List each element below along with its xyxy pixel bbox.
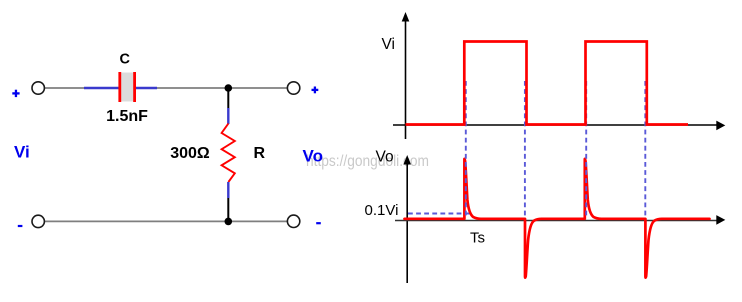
terminal Vo- xyxy=(287,215,299,227)
Vi graph horizontal axis xyxy=(393,121,725,131)
wire bottom xyxy=(45,220,288,222)
svg-text:Ts: Ts xyxy=(470,230,485,247)
dashed level 0.1Vi xyxy=(408,213,470,215)
svg-text:Vi: Vi xyxy=(382,36,396,53)
wire top-left xyxy=(45,87,85,89)
minus sign Vi- xyxy=(18,225,23,227)
Vi square wave xyxy=(406,42,689,125)
resistor R lead top xyxy=(227,88,229,124)
dashed line t3 xyxy=(585,81,587,216)
Vo waveform xyxy=(405,159,710,278)
resistor R lead bottom xyxy=(227,182,229,221)
svg-text:300Ω: 300Ω xyxy=(170,145,210,162)
terminal Vi+ xyxy=(32,82,44,94)
svg-text:C: C xyxy=(120,52,131,68)
capacitor C xyxy=(118,72,136,102)
terminal Vi- xyxy=(32,215,44,227)
capacitor C lead left xyxy=(84,87,119,89)
resistor R xyxy=(222,124,235,183)
dashed line t1 xyxy=(465,81,467,216)
dashed line t4 xyxy=(644,81,646,216)
Vi graph vertical axis xyxy=(402,12,410,139)
svg-text:Vo: Vo xyxy=(303,147,323,166)
minus sign Vo- xyxy=(316,222,321,224)
dashed line t2 xyxy=(524,81,526,216)
plus sign Vi+ xyxy=(12,90,19,97)
svg-text:0.1Vi: 0.1Vi xyxy=(365,202,399,219)
plus sign Vo+ xyxy=(312,87,319,94)
svg-text:R: R xyxy=(254,145,266,162)
svg-text:Vi: Vi xyxy=(14,143,30,162)
capacitor C lead right xyxy=(136,87,157,89)
svg-text:1.5nF: 1.5nF xyxy=(106,108,148,125)
terminal Vo+ xyxy=(287,82,299,94)
wire top-right xyxy=(157,87,288,89)
Vo graph horizontal axis xyxy=(395,215,725,225)
svg-text:https://gongdoli.com: https://gongdoli.com xyxy=(306,153,429,170)
svg-text:Vo: Vo xyxy=(376,149,394,166)
Vo graph vertical axis xyxy=(403,155,411,283)
node junction bottom xyxy=(225,218,233,226)
node junction top xyxy=(225,84,233,92)
